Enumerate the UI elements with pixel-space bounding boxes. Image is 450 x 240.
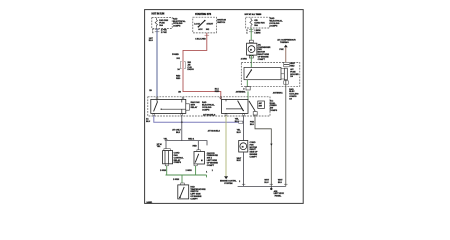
motor M2 label xyxy=(250,142,259,158)
label yel blu below purple end xyxy=(237,129,242,133)
connector ticks on red vertical xyxy=(180,62,185,69)
fuse F2 xyxy=(250,18,252,28)
svg-text:COMPT: COMPT xyxy=(250,156,258,158)
switch position labels xyxy=(194,22,213,31)
pressure switch in dashed box xyxy=(249,101,264,111)
svg-text:RADIO: RADIO xyxy=(187,68,194,71)
svg-text:HOT AT ALL TIMES: HOT AT ALL TIMES xyxy=(245,13,262,16)
wire dark motor down to bus xyxy=(238,152,286,189)
GRN labels xyxy=(160,170,214,181)
svg-text:COMPT: COMPT xyxy=(190,198,198,200)
svg-text:COMPT: COMPT xyxy=(258,59,266,61)
wire dark left relay pin down xyxy=(181,116,183,141)
svg-text:BLU: BLU xyxy=(237,132,242,134)
svg-text:1 BRN: 1 BRN xyxy=(254,33,260,35)
wire green bottom bus xyxy=(166,166,207,183)
connector stack on thermo wire xyxy=(284,62,290,64)
motor M1 label xyxy=(258,43,271,60)
svg-text:LOCK: LOCK xyxy=(194,23,200,25)
svg-text:BLU: BLU xyxy=(250,124,255,126)
svg-text:RED: RED xyxy=(290,66,295,68)
svg-text:1G: 1G xyxy=(289,98,292,100)
svg-text:BLU: BLU xyxy=(146,121,151,123)
junction block J/B (dashed, top-left) xyxy=(152,17,172,28)
svg-text:RED: RED xyxy=(193,146,198,148)
thermo sensor dashed box xyxy=(241,63,299,87)
wire blue fuse to relay xyxy=(156,28,158,97)
cond fan relay K2 xyxy=(222,99,249,113)
label YEL left xyxy=(164,139,169,141)
wire label BLU xyxy=(149,38,154,42)
svg-text:1 BLK-RED: 1 BLK-RED xyxy=(195,39,206,41)
connector ticks bottom verticals xyxy=(242,183,288,185)
svg-text:1G: 1G xyxy=(290,76,293,78)
connector on green drop xyxy=(246,87,250,90)
relay assembly dashed box xyxy=(148,97,270,116)
svg-text:PNK: PNK xyxy=(279,49,284,51)
wire dark pressure switch down-right xyxy=(255,111,271,187)
svg-text:COMPS: COMPS xyxy=(270,110,278,112)
arrow label xyxy=(220,181,237,186)
label A/T right xyxy=(188,138,195,141)
label A/T ONLY mid-left xyxy=(172,130,181,135)
connector below motor xyxy=(249,56,253,58)
relay pins top xyxy=(156,97,158,99)
svg-text:30A: 30A xyxy=(159,24,163,27)
wire dark relay2 pin to motor xyxy=(243,116,245,141)
connector switch top xyxy=(197,150,200,152)
labels right of red wire xyxy=(187,62,194,71)
label fused xyxy=(172,54,181,60)
label A/C compressor thermo xyxy=(277,39,296,45)
connector on pressure drop xyxy=(253,112,257,115)
svg-text:START: START xyxy=(207,22,214,25)
cond fan switch S2 xyxy=(194,152,205,165)
svg-text:RELAY: RELAY xyxy=(191,106,198,109)
connector temp switch top xyxy=(181,183,185,185)
svg-text:BLK: BLK xyxy=(237,160,242,162)
svg-text:STARTING SYS: STARTING SYS xyxy=(195,13,212,16)
wire red ignition feed xyxy=(183,33,221,100)
arrow yelgreen to control xyxy=(224,176,228,179)
svg-text:COMPS: COMPS xyxy=(270,25,278,27)
svg-text:PANEL: PANEL xyxy=(275,195,282,198)
fuse 2 value label xyxy=(254,20,265,27)
svg-text:RED: RED xyxy=(176,78,181,80)
connector resistor bottom xyxy=(165,164,168,166)
inner component box xyxy=(244,67,281,79)
pin 7 and connector below fuse xyxy=(152,29,167,34)
svg-text:BLK: BLK xyxy=(176,132,181,134)
connector on red wire xyxy=(205,34,210,36)
svg-text:RED 4: RED 4 xyxy=(188,138,195,141)
svg-text:30A: 30A xyxy=(254,24,258,27)
svg-text:A/T MODELS: A/T MODELS xyxy=(203,114,216,117)
pressure switch label xyxy=(270,99,278,112)
switch blade xyxy=(199,21,205,27)
wire label 2 xyxy=(149,90,152,92)
connector C2 on green wire xyxy=(249,40,253,42)
svg-text:A/C: A/C xyxy=(259,102,263,105)
svg-text:SWITCH: SWITCH xyxy=(217,22,225,24)
fuse holder label xyxy=(290,68,299,78)
svg-text:2 GRN: 2 GRN xyxy=(160,170,167,172)
svg-text:SYSTEM: SYSTEM xyxy=(224,183,233,185)
connector below fuse holder xyxy=(284,81,289,84)
wire green motor to thermo box xyxy=(250,55,252,70)
wire green fuse2 down xyxy=(250,28,252,43)
connector switch bottom xyxy=(194,164,197,166)
svg-text:A/C COMPRESSOR: A/C COMPRESSOR xyxy=(277,39,296,42)
WHT BLU labels xyxy=(264,180,269,185)
link wires in dashed box xyxy=(281,69,284,79)
wire dark thermo lower xyxy=(285,80,287,187)
svg-text:RAD FAN: RAD FAN xyxy=(159,19,168,22)
svg-text:COMPS: COMPS xyxy=(174,162,182,164)
svg-text:BLU: BLU xyxy=(235,121,240,123)
svg-text:COMPT: COMPT xyxy=(207,165,215,167)
label right margin block xyxy=(289,88,299,101)
middle label block xyxy=(191,101,200,109)
junction arrow on 271 wire xyxy=(270,144,272,146)
fuse value label xyxy=(159,19,168,27)
wire brown thermo down xyxy=(285,47,287,62)
engine temp switch S3 xyxy=(178,185,189,199)
svg-text:BLU: BLU xyxy=(149,40,154,42)
svg-text:A/T MODELS: A/T MODELS xyxy=(208,130,221,133)
fuse holder narrow box xyxy=(284,68,287,80)
switch S2 label xyxy=(207,153,219,167)
svg-text:ACC: ACC xyxy=(198,28,203,31)
pins below fuse 2 xyxy=(246,29,260,34)
svg-text:COMPS: COMPS xyxy=(202,109,210,111)
svg-text:BLU: BLU xyxy=(264,182,269,184)
svg-text:2 GRN: 2 GRN xyxy=(173,179,180,181)
label BLU left xyxy=(146,117,151,123)
ground label xyxy=(274,190,285,198)
label A/T yel above resistor xyxy=(157,144,162,148)
wire green thermo box to relay box xyxy=(246,80,249,101)
svg-text:COND FAN: COND FAN xyxy=(254,22,265,25)
junction block label xyxy=(173,17,186,27)
temp switch label xyxy=(190,185,206,200)
ignition switch label xyxy=(217,19,226,24)
wire branch horizontal to resistor and switch xyxy=(165,141,207,150)
junction block 2 (dashed, top-right) xyxy=(246,17,270,28)
svg-text:SW: SW xyxy=(259,106,262,108)
svg-text:ANTENNA: ANTENNA xyxy=(236,91,246,94)
wire yelgreen relay2 down to arrow xyxy=(225,116,227,176)
svg-text:THERMO: THERMO xyxy=(280,42,289,44)
connector resistor top xyxy=(164,149,170,151)
thermo switch blade xyxy=(247,70,252,77)
arrow from thermo xyxy=(284,45,288,48)
cond fan motor M2 xyxy=(239,141,248,153)
svg-text:COMPS: COMPS xyxy=(173,26,181,28)
svg-text:RED: RED xyxy=(215,91,220,93)
connector on purple wire right xyxy=(239,121,243,123)
label WHT BLK below motor xyxy=(237,158,242,162)
svg-text:ANTENNA: ANTENNA xyxy=(273,91,283,94)
relay pins bottom xyxy=(153,114,155,116)
svg-text:BLU: BLU xyxy=(278,182,283,184)
rad fan relay K1 xyxy=(151,99,186,113)
fuse F1 RAD FAN 30A xyxy=(155,18,157,28)
svg-text:HOT IN RUN: HOT IN RUN xyxy=(152,13,165,15)
connector bump between relays xyxy=(186,104,190,110)
svg-text:2 PNK: 2 PNK xyxy=(161,32,167,34)
junction block 2 label xyxy=(270,17,283,27)
condenser fan motor M1 xyxy=(247,43,257,55)
labels near relay2 bottom xyxy=(235,119,240,124)
svg-text:548E1: 548E1 xyxy=(147,201,154,204)
relay2 pins xyxy=(220,97,222,99)
junction dot bottom right xyxy=(270,188,272,190)
svg-text:2 BRN: 2 BRN xyxy=(241,59,247,61)
svg-text:2 GRN: 2 GRN xyxy=(186,170,193,172)
svg-text:FUSED: FUSED xyxy=(172,54,179,56)
border frame xyxy=(145,10,304,204)
ignition switch IGN (dashed) xyxy=(193,17,217,33)
resistor label xyxy=(174,153,185,165)
label RED mid xyxy=(193,146,198,148)
wire purple relay outputs xyxy=(154,116,244,123)
junction purple/dark xyxy=(181,121,183,123)
cond fan resistor xyxy=(163,151,173,164)
